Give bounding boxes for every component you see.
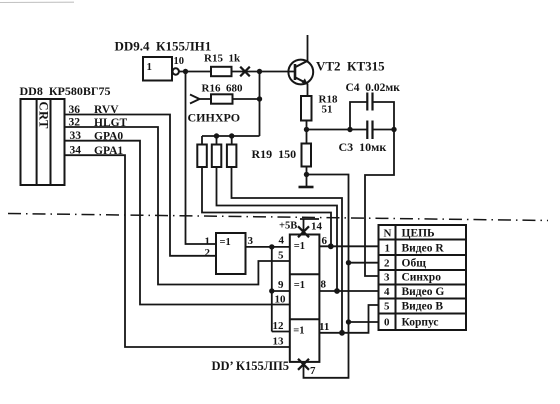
table row 2 Obshch bbox=[384, 258, 426, 270]
svg-text:51: 51 bbox=[322, 104, 333, 116]
svg-text:3: 3 bbox=[248, 235, 254, 247]
node pin9 junction bbox=[269, 288, 274, 293]
wire output 8 to Video G bbox=[319, 290, 378, 292]
svg-text:=1: =1 bbox=[220, 237, 231, 248]
resistor R16 bbox=[211, 94, 233, 103]
svg-text:12: 12 bbox=[273, 320, 285, 332]
wire collector up bbox=[307, 35, 309, 61]
X cut mark on pin 7 bbox=[298, 359, 309, 370]
op-amp U2 DD8 CRT controller box bbox=[21, 99, 65, 185]
wire to pin 9 bbox=[272, 290, 290, 292]
wire output 6 to Video R bbox=[319, 245, 378, 247]
svg-text:+5В: +5В bbox=[279, 221, 297, 232]
svg-text:CRT: CRT bbox=[37, 102, 51, 130]
resistor R18 bbox=[301, 96, 312, 121]
svg-text:0: 0 bbox=[384, 317, 390, 329]
wire pull-up rail bbox=[202, 135, 260, 137]
svg-text:VT2 КТ315: VT2 КТ315 bbox=[316, 59, 385, 74]
svg-text:14: 14 bbox=[311, 221, 323, 233]
svg-text:Видео R: Видео R bbox=[402, 243, 445, 255]
table row 4 Video G bbox=[384, 286, 444, 298]
wire pull-up 2 to gate output 8 bbox=[217, 167, 338, 291]
node rail junction 3 bbox=[229, 133, 234, 138]
svg-text:R19 150: R19 150 bbox=[252, 147, 297, 161]
node ground junction bbox=[304, 172, 309, 177]
wire DD9.4 output to R15 bbox=[179, 71, 211, 73]
dash-dot section divider bbox=[8, 214, 548, 221]
wire rail stub 2 bbox=[216, 136, 218, 145]
svg-text:R16 680: R16 680 bbox=[202, 83, 243, 95]
wire ground to Obshch row bbox=[349, 262, 379, 264]
svg-text:1: 1 bbox=[205, 236, 211, 248]
wire output 11 to Video B bbox=[319, 305, 378, 333]
svg-text:C4 0.02мк: C4 0.02мк bbox=[346, 82, 401, 94]
wire R19 top bbox=[306, 130, 308, 144]
node C left junction bbox=[347, 127, 352, 132]
svg-text:ЦЕПЬ: ЦЕПЬ bbox=[402, 228, 436, 240]
svg-text:=1: =1 bbox=[294, 241, 305, 252]
svg-text:С3 10мк: С3 10мк bbox=[339, 140, 387, 154]
svg-text:СИНХРО: СИНХРО bbox=[188, 111, 241, 125]
node pin4 branch junction bbox=[269, 244, 274, 249]
wire to pin 12 bbox=[272, 331, 290, 333]
svg-text:4: 4 bbox=[279, 235, 285, 247]
svg-text:7: 7 bbox=[310, 365, 316, 377]
wire HLGT to gate pin 5 bbox=[65, 127, 290, 285]
node output 6 pull-up junction bbox=[328, 243, 334, 249]
X cut mark on R15 wire bbox=[240, 67, 250, 77]
xor gate column DD' K155LP5 bbox=[290, 235, 320, 362]
wire ground to Korpus row bbox=[349, 321, 379, 323]
svg-text:8: 8 bbox=[321, 279, 327, 291]
svg-text:N: N bbox=[384, 228, 392, 240]
resistor pull-up 3 bbox=[227, 145, 237, 168]
wire GPA0 to gate pin 10 bbox=[65, 141, 290, 305]
transistor Q1 VT2 bbox=[288, 60, 313, 85]
svg-text:9: 9 bbox=[278, 279, 284, 291]
node emitter junction bbox=[304, 127, 309, 132]
wire C4 right branch bbox=[373, 102, 394, 130]
wire rail stub 3 bbox=[231, 136, 233, 145]
wire R15 to VT2 base bbox=[232, 71, 295, 73]
scan artifact faint line bbox=[0, 1, 74, 3]
node ground Korpus junction bbox=[346, 319, 351, 324]
wire RVV to gate pin 2 bbox=[65, 115, 217, 256]
node SINHRO input arrow bbox=[190, 95, 200, 104]
node output 8 pull-up junction bbox=[334, 288, 340, 294]
xor gate DD'1 box bbox=[216, 233, 246, 274]
svg-text:DD8 КР580ВГ75: DD8 КР580ВГ75 bbox=[20, 84, 111, 98]
node output 11 pull-up junction bbox=[339, 330, 345, 336]
node rail junction 2 bbox=[214, 133, 219, 138]
wire C4 left branch bbox=[350, 102, 367, 130]
resistor pull-up 1 bbox=[197, 145, 207, 168]
svg-text:13: 13 bbox=[273, 336, 285, 348]
wire R18 to emitter node bbox=[306, 121, 308, 130]
svg-text:2: 2 bbox=[205, 247, 211, 259]
resistor R19 bbox=[302, 144, 312, 167]
svg-text:Видео B: Видео B bbox=[402, 301, 444, 313]
wire junction down to pull-up rail bbox=[259, 72, 261, 137]
svg-text:2: 2 bbox=[384, 258, 390, 270]
node DD9.4 output junction bbox=[183, 69, 188, 74]
svg-text:6: 6 bbox=[322, 235, 328, 247]
resistor pull-up 2 bbox=[212, 145, 222, 168]
table row 0 Korpus bbox=[384, 317, 439, 329]
svg-text:11: 11 bbox=[319, 321, 329, 333]
svg-text:4: 4 bbox=[384, 286, 390, 298]
capacitor C4 bbox=[367, 93, 372, 111]
node ground Obshch junction bbox=[346, 260, 351, 265]
wire C3 right to node bbox=[373, 129, 394, 131]
svg-text:10: 10 bbox=[275, 294, 287, 306]
wire arrow to R16 bbox=[200, 98, 212, 100]
svg-text:Видео G: Видео G bbox=[402, 286, 445, 298]
node R15/R16 junction bbox=[257, 69, 262, 74]
resistor R15 bbox=[211, 67, 232, 76]
wire pull-up 3 to gate output 11 bbox=[232, 167, 343, 333]
svg-text:10: 10 bbox=[174, 56, 185, 67]
svg-text:Корпус: Корпус bbox=[402, 317, 439, 329]
svg-text:DD9.4 К155ЛН1: DD9.4 К155ЛН1 bbox=[115, 39, 212, 54]
table row 3 Sinhro bbox=[384, 272, 441, 284]
node C right junction bbox=[391, 127, 396, 132]
svg-text:Общ: Общ bbox=[402, 258, 427, 270]
wire emitter down to R18 bbox=[307, 84, 309, 97]
wire R16 to junction bbox=[233, 98, 260, 100]
svg-text:DD’ К155ЛП5: DD’ К155ЛП5 bbox=[212, 359, 290, 373]
wire emitter node to C3 bbox=[307, 129, 368, 131]
wire DD9.4 output down to gate pin 1 bbox=[186, 72, 217, 245]
wire ground net to pin 7 bbox=[304, 175, 349, 378]
wire pull-up 1 to gate output 6 bbox=[202, 167, 331, 246]
wire branch down to pins 9 and 12 bbox=[271, 247, 273, 332]
wire gate output 3 to pin 4 bbox=[246, 246, 290, 248]
wire sync output from C network bbox=[365, 130, 394, 277]
wire pin 14 power stub bbox=[300, 219, 319, 235]
inverter DD9.4 box bbox=[143, 57, 179, 81]
connector table bbox=[379, 225, 467, 330]
svg-text:Синхро: Синхро bbox=[402, 272, 442, 284]
ground bbox=[299, 175, 314, 188]
svg-text:5: 5 bbox=[278, 250, 284, 262]
svg-text:1: 1 bbox=[385, 243, 391, 255]
svg-text:3: 3 bbox=[384, 272, 390, 284]
X cut mark on pin 14 bbox=[298, 226, 309, 237]
table row 5 Video B bbox=[384, 301, 443, 313]
svg-text:=1: =1 bbox=[294, 280, 305, 291]
wire rail stub 1 bbox=[201, 136, 203, 145]
wire GPA1 to gate pin 13 bbox=[65, 155, 290, 347]
node R16 junction bbox=[257, 96, 262, 101]
capacitor C3 bbox=[367, 121, 372, 140]
svg-text:=1: =1 bbox=[293, 326, 304, 337]
svg-text:1: 1 bbox=[147, 61, 153, 73]
svg-text:5: 5 bbox=[384, 301, 390, 313]
wire R19 bottom bbox=[306, 167, 308, 175]
table row 1 Video R bbox=[385, 243, 445, 255]
svg-text:R15 1k: R15 1k bbox=[204, 53, 241, 65]
